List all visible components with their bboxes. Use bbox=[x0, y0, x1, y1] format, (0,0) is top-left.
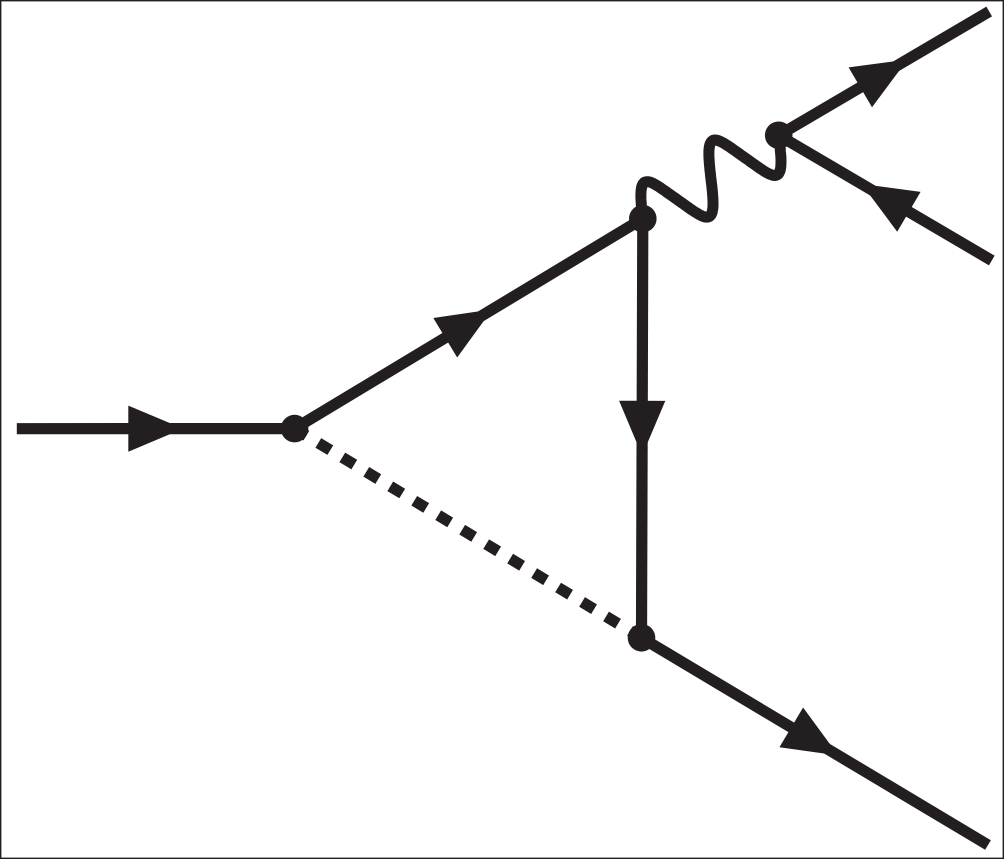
wire: incoming fermion line (left external leg) bbox=[17, 423, 295, 434]
arrow on upper right leg (pointing outward) bbox=[849, 60, 908, 108]
vertex V1 bbox=[281, 415, 309, 443]
dashed scalar propagator V1 to V3 bbox=[295, 429, 642, 638]
wire: outgoing fermion line (upper right external leg) bbox=[779, 12, 990, 136]
arrow on bottom right leg (pointing outward) bbox=[779, 708, 838, 756]
wire: outgoing fermion line (bottom right external leg) bbox=[642, 638, 989, 845]
photon wavy line V2 to V4 bbox=[641, 135, 781, 218]
wire: fermion propagator V1 to V2 (upper internal line) bbox=[295, 219, 643, 429]
arrow on V2-V3 propagator (pointing down) bbox=[619, 401, 665, 456]
vertex V3 bbox=[628, 624, 656, 652]
vertex V4 bbox=[765, 122, 793, 150]
fermion propagator V2 to V3 (vertical internal line) bbox=[642, 219, 643, 638]
arrow on V1-V2 propagator bbox=[433, 309, 492, 357]
wire: incoming antifermion line (lower right external leg) bbox=[779, 135, 992, 260]
arrow on incoming fermion line bbox=[128, 406, 183, 452]
vertex V2 bbox=[629, 205, 657, 233]
arrow on lower right leg (pointing toward vertex V4) bbox=[862, 184, 921, 232]
